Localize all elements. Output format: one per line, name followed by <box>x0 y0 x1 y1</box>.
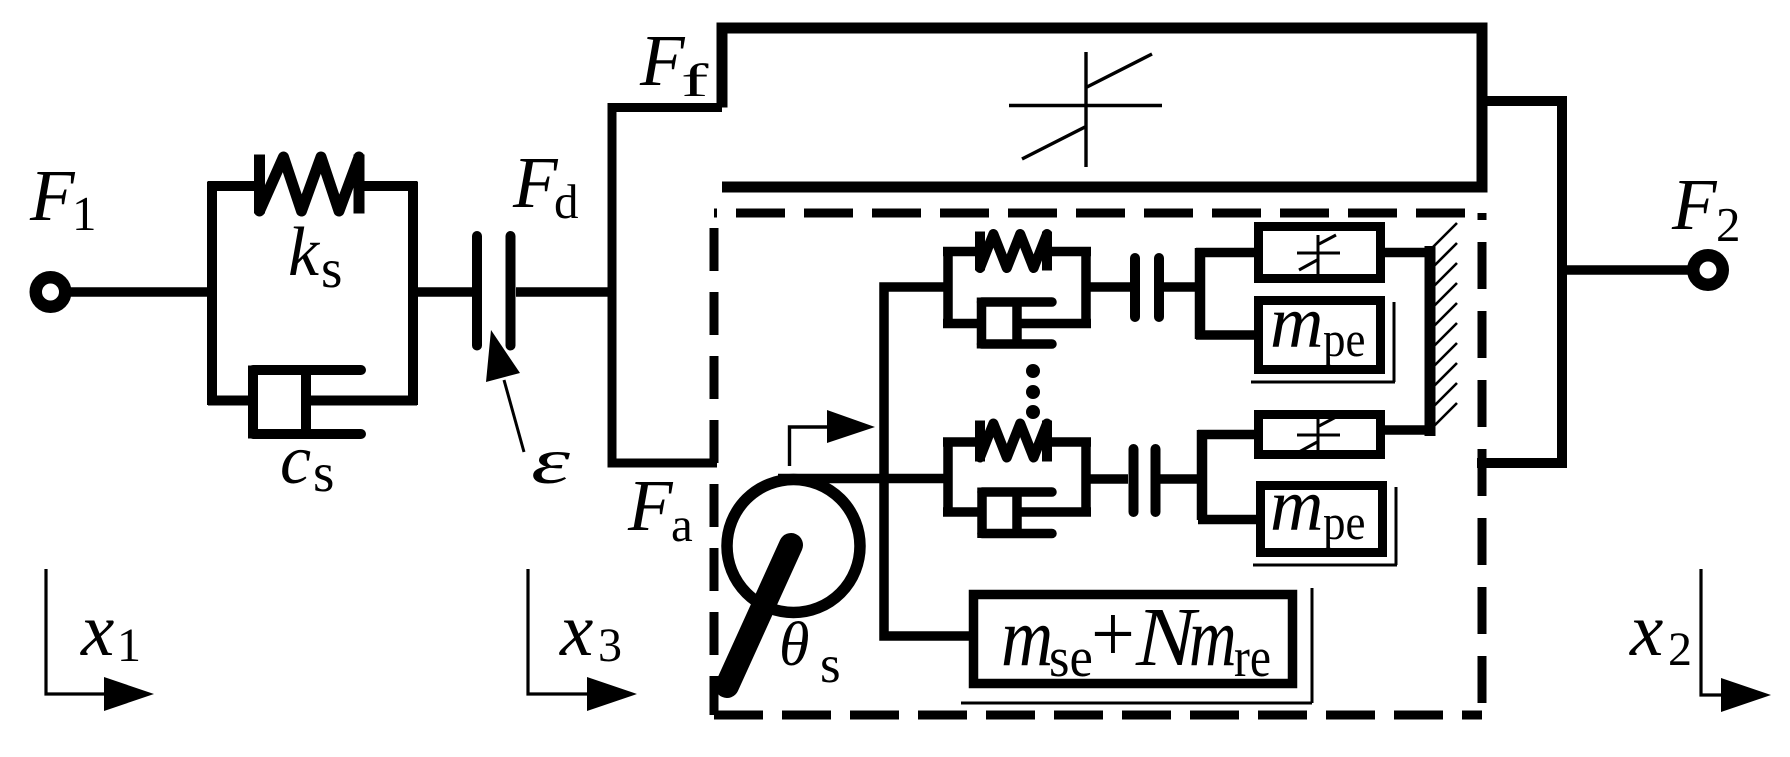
svg-text:x: x <box>80 589 114 672</box>
svg-text:F: F <box>627 465 674 546</box>
svg-text:F: F <box>639 20 686 101</box>
svg-text:s: s <box>820 636 841 694</box>
svg-text:pe: pe <box>1323 496 1365 551</box>
svg-text:θ: θ <box>779 611 809 679</box>
svg-text:x: x <box>559 589 593 672</box>
svg-text:k: k <box>288 214 321 291</box>
svg-text:F: F <box>512 142 559 223</box>
svg-text:s: s <box>321 238 342 299</box>
svg-text:d: d <box>554 174 579 229</box>
svg-text:ε: ε <box>531 425 571 498</box>
svg-text:f: f <box>681 55 709 107</box>
svg-text:m: m <box>1189 592 1237 684</box>
svg-text:pe: pe <box>1323 313 1365 368</box>
svg-text:m: m <box>1001 590 1053 683</box>
svg-text:a: a <box>671 497 693 552</box>
svg-text:3: 3 <box>598 619 622 672</box>
svg-text:1: 1 <box>117 619 141 672</box>
svg-text:m: m <box>1270 282 1323 364</box>
svg-text:+: + <box>1091 589 1135 679</box>
svg-text:1: 1 <box>72 186 97 241</box>
svg-text:re: re <box>1234 628 1271 689</box>
svg-text:se: se <box>1049 627 1093 689</box>
svg-text:F: F <box>1671 164 1718 245</box>
svg-text:x: x <box>1629 589 1663 672</box>
svg-text:F: F <box>29 155 76 236</box>
svg-text:2: 2 <box>1668 623 1692 676</box>
svg-text:c: c <box>280 422 311 499</box>
svg-text:m: m <box>1270 465 1323 547</box>
svg-text:2: 2 <box>1716 197 1741 252</box>
svg-text:s: s <box>313 442 334 503</box>
